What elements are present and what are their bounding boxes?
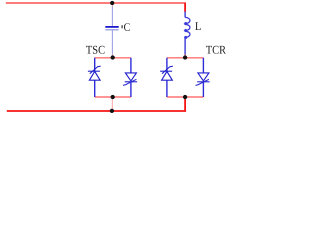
node junction TSC bottom rail <box>111 95 115 99</box>
label TSC <box>86 46 105 54</box>
wire TSC bottom tap <box>111 98 113 110</box>
node junction TCR top rail <box>183 55 187 59</box>
thyristor TCR right (down) wires <box>202 58 204 73</box>
node junction bottom bus <box>110 109 114 113</box>
wire inductor lead upper <box>184 12 186 18</box>
node junction top wire / cap <box>110 1 114 5</box>
TCR block top rail <box>167 57 204 59</box>
wire top bus <box>6 2 186 4</box>
node junction TSC top rail <box>111 55 115 59</box>
wire bottom bus <box>7 110 186 112</box>
label C <box>124 23 130 31</box>
wire cap lead upper <box>111 7 113 27</box>
thyristor TCR left (up) symbol <box>160 66 173 80</box>
label TCR <box>206 46 226 54</box>
TSC block top rail <box>95 57 131 59</box>
capacitor C bottom plate <box>105 29 118 31</box>
thyristor TSC right (down) wires <box>130 58 132 73</box>
thyristor TSC left (up) symbol <box>88 66 101 80</box>
thyristor TSC right (down) symbol <box>123 73 137 86</box>
label L <box>195 22 201 30</box>
thyristor TSC left (up) wires <box>94 58 96 71</box>
wire red stub above TCR rail <box>184 55 186 59</box>
capacitor C top plate <box>105 26 118 28</box>
wire TSC cap lead red stub top <box>111 3 113 8</box>
TSC block bottom rail <box>95 96 131 98</box>
TCR block bottom rail <box>167 96 204 98</box>
inductor L coil <box>185 17 190 38</box>
node junction TCR bottom rail <box>183 95 187 99</box>
label C tick <box>122 25 123 28</box>
thyristor TCR right (down) symbol <box>196 73 210 86</box>
thyristor TCR left (up) wires <box>166 58 168 71</box>
wire TCR drop red bottom <box>184 97 186 112</box>
wire red stub above TSC rail <box>111 55 113 58</box>
wire cap lead lower <box>111 30 113 55</box>
wire inductor lead lower <box>184 38 186 55</box>
wire TCR drop red top <box>184 3 186 12</box>
